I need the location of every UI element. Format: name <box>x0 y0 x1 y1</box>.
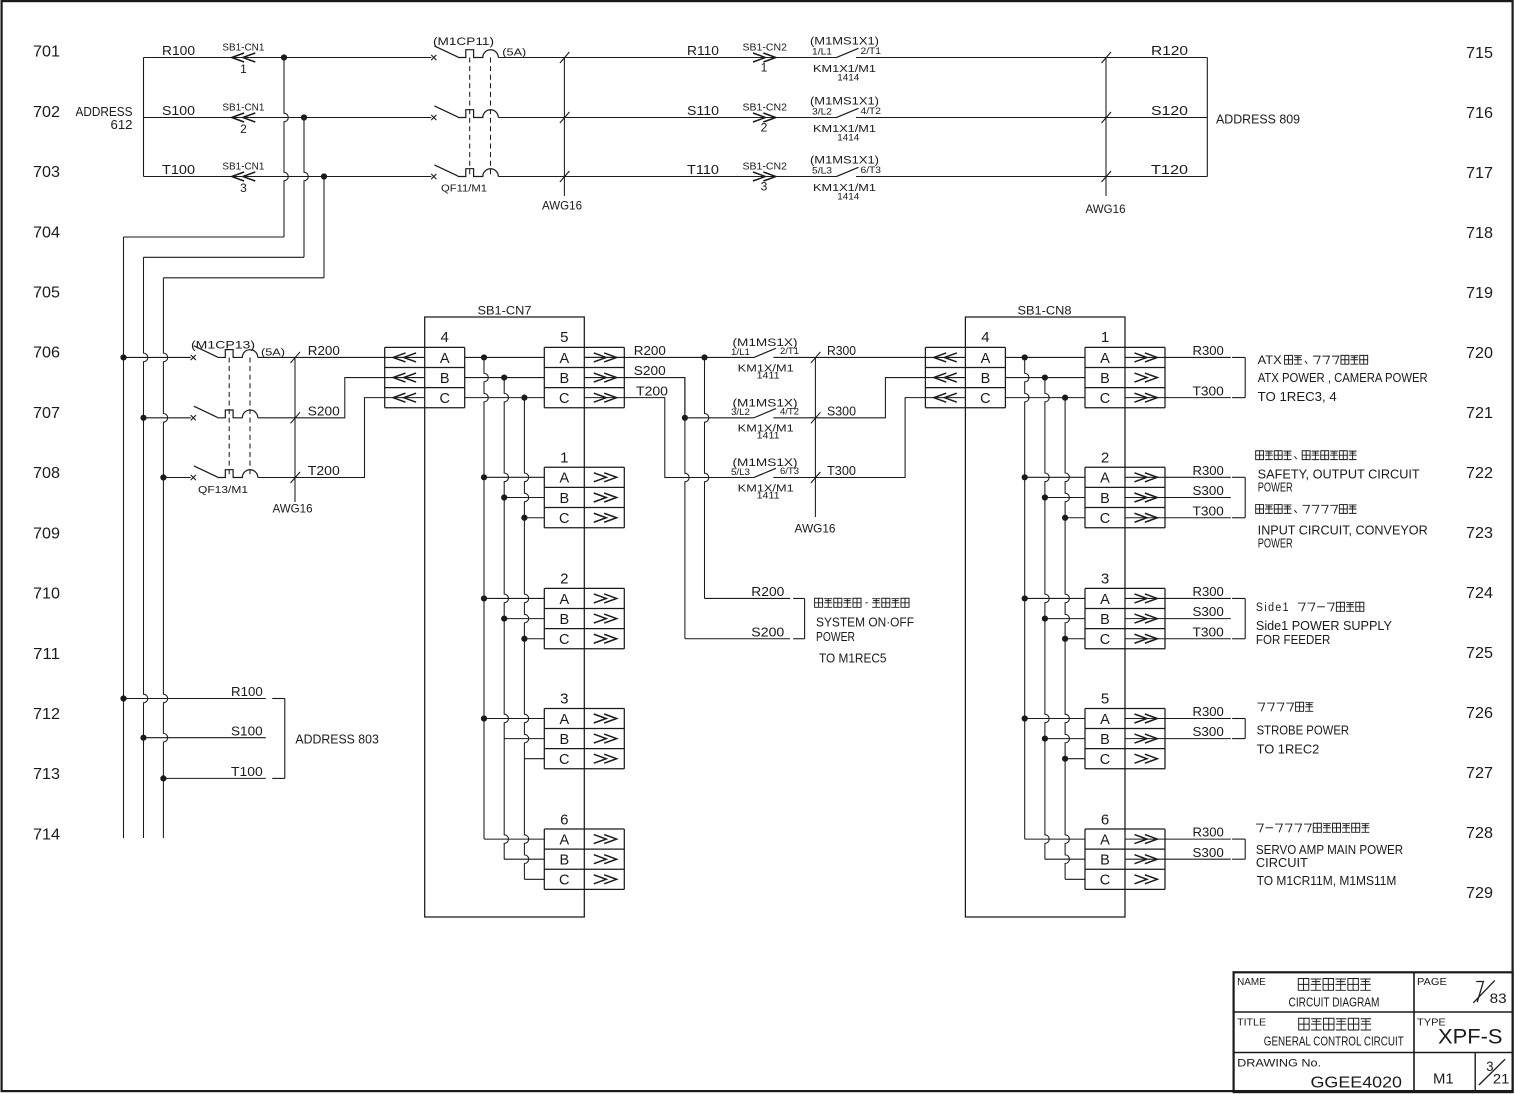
svg-text:ADDRESS 803: ADDRESS 803 <box>295 732 378 747</box>
svg-text:711: 711 <box>33 646 60 663</box>
svg-text:S100: S100 <box>162 103 195 118</box>
svg-text:704: 704 <box>33 224 60 241</box>
svg-text:SAFETY, OUTPUT CIRCUIT: SAFETY, OUTPUT CIRCUIT <box>1258 467 1420 481</box>
svg-text:2: 2 <box>560 571 568 588</box>
svg-text:4: 4 <box>441 329 449 346</box>
svg-text:725: 725 <box>1466 645 1493 662</box>
svg-text:B: B <box>559 853 569 869</box>
svg-text:QF13/M1: QF13/M1 <box>198 484 248 496</box>
svg-text:720: 720 <box>1466 345 1493 362</box>
svg-text:728: 728 <box>1466 825 1493 842</box>
svg-text:T300: T300 <box>1193 624 1224 639</box>
svg-text:POWER: POWER <box>816 630 855 644</box>
svg-text:(M1CP11): (M1CP11) <box>433 36 494 48</box>
svg-text:B: B <box>559 612 569 628</box>
svg-text:3: 3 <box>240 181 247 195</box>
svg-text:B: B <box>559 491 569 507</box>
svg-text:4/T2: 4/T2 <box>861 106 882 116</box>
svg-text:R100: R100 <box>231 684 263 699</box>
svg-text:2/T1: 2/T1 <box>780 346 799 356</box>
svg-text:C: C <box>559 873 569 889</box>
svg-text:QF11/M1: QF11/M1 <box>441 183 487 195</box>
svg-text:729: 729 <box>1466 885 1493 902</box>
svg-text:S100: S100 <box>231 723 263 738</box>
svg-text:R100: R100 <box>162 43 195 58</box>
svg-text:T300: T300 <box>827 463 856 478</box>
svg-text:714: 714 <box>33 826 60 843</box>
svg-text:GENERAL CONTROL CIRCUIT: GENERAL CONTROL CIRCUIT <box>1264 1034 1404 1049</box>
svg-text:721: 721 <box>1466 405 1493 422</box>
svg-text:SB1-CN1: SB1-CN1 <box>222 43 264 54</box>
svg-text:TO 1REC2: TO 1REC2 <box>1257 742 1320 756</box>
svg-text:XPF-S: XPF-S <box>1438 1026 1503 1049</box>
svg-text:Side1 POWER SUPPLY: Side1 POWER SUPPLY <box>1256 619 1393 633</box>
svg-text:POWER: POWER <box>1258 481 1293 495</box>
svg-text:5: 5 <box>560 329 568 346</box>
svg-text:PAGE: PAGE <box>1417 976 1447 988</box>
svg-text:T100: T100 <box>162 162 195 177</box>
svg-text:C: C <box>439 391 449 407</box>
svg-text:722: 722 <box>1466 465 1493 482</box>
svg-text:ATX: ATX <box>1258 355 1282 367</box>
svg-text:POWER: POWER <box>1258 537 1293 551</box>
svg-text:724: 724 <box>1466 585 1493 602</box>
svg-text:715: 715 <box>1466 45 1493 62</box>
svg-text:TO M1REC5: TO M1REC5 <box>819 652 887 666</box>
svg-text:B: B <box>1100 853 1110 869</box>
svg-text:M1: M1 <box>1433 1071 1454 1088</box>
svg-text:CIRCUIT DIAGRAM: CIRCUIT DIAGRAM <box>1289 995 1380 1010</box>
svg-text:C: C <box>1100 873 1110 889</box>
svg-text:5/L3: 5/L3 <box>731 467 750 477</box>
svg-text:1414: 1414 <box>837 192 859 203</box>
svg-text:717: 717 <box>1466 165 1493 182</box>
svg-text:T300: T300 <box>1193 503 1224 518</box>
svg-text:A: A <box>1100 471 1110 487</box>
svg-text:C: C <box>559 752 569 768</box>
svg-text:6/T3: 6/T3 <box>861 165 882 175</box>
svg-text:2: 2 <box>761 121 768 135</box>
svg-text:703: 703 <box>33 164 60 181</box>
svg-text:A: A <box>559 832 569 848</box>
svg-text:S300: S300 <box>827 403 856 418</box>
svg-text:S200: S200 <box>634 363 666 378</box>
svg-text:T200: T200 <box>636 383 668 398</box>
svg-text:3: 3 <box>761 180 768 194</box>
svg-text:TO M1CR11M, M1MS11M: TO M1CR11M, M1MS11M <box>1257 874 1397 888</box>
svg-text:T200: T200 <box>308 463 340 478</box>
svg-text:1: 1 <box>560 449 568 466</box>
svg-text:B: B <box>559 732 569 748</box>
svg-text:R300: R300 <box>827 343 856 358</box>
svg-text:T110: T110 <box>687 162 719 177</box>
svg-text:STROBE POWER: STROBE POWER <box>1257 723 1350 737</box>
svg-text:716: 716 <box>1466 105 1493 122</box>
svg-text:R110: R110 <box>687 43 719 58</box>
svg-text:Side1: Side1 <box>1256 602 1290 614</box>
svg-text:SERVO AMP MAIN POWER: SERVO AMP MAIN POWER <box>1256 843 1403 857</box>
svg-text:A: A <box>559 351 569 367</box>
svg-text:GGEE4020: GGEE4020 <box>1311 1074 1403 1091</box>
svg-text:1411: 1411 <box>757 431 780 442</box>
svg-text:1/L1: 1/L1 <box>731 347 750 357</box>
svg-text:4: 4 <box>981 329 989 346</box>
svg-text:708: 708 <box>33 465 60 482</box>
svg-text:4/T2: 4/T2 <box>780 406 799 416</box>
svg-text:INPUT CIRCUIT, CONVEYOR: INPUT CIRCUIT, CONVEYOR <box>1258 524 1428 538</box>
svg-text:1414: 1414 <box>837 133 859 144</box>
svg-text:S120: S120 <box>1151 103 1188 118</box>
svg-text:SB1-CN2: SB1-CN2 <box>743 162 788 173</box>
svg-text:ATX POWER , CAMERA POWER: ATX POWER , CAMERA POWER <box>1258 371 1428 385</box>
svg-text:B: B <box>981 371 991 387</box>
svg-text:TITLE: TITLE <box>1237 1017 1266 1029</box>
svg-text:2/T1: 2/T1 <box>861 46 882 56</box>
svg-text:B: B <box>1100 491 1110 507</box>
svg-text:R300: R300 <box>1193 704 1224 719</box>
svg-text:AWG16: AWG16 <box>273 502 313 516</box>
svg-text:6: 6 <box>1101 811 1109 828</box>
svg-text:710: 710 <box>33 586 60 603</box>
svg-text:S200: S200 <box>308 403 340 418</box>
svg-text:1: 1 <box>761 61 768 75</box>
svg-text:C: C <box>559 632 569 648</box>
svg-text:SB1-CN1: SB1-CN1 <box>222 162 264 173</box>
svg-text:R200: R200 <box>751 584 784 599</box>
svg-text:T300: T300 <box>1193 383 1224 398</box>
svg-text:707: 707 <box>33 405 60 422</box>
svg-text:A: A <box>559 471 569 487</box>
svg-text:3: 3 <box>560 691 568 708</box>
svg-text:S300: S300 <box>1193 845 1224 860</box>
svg-text:T100: T100 <box>231 764 263 779</box>
svg-text:R200: R200 <box>308 343 340 358</box>
svg-text:1414: 1414 <box>837 73 859 84</box>
svg-text:C: C <box>559 391 569 407</box>
svg-text:R300: R300 <box>1193 463 1224 478</box>
svg-text:S300: S300 <box>1193 604 1224 619</box>
svg-text:1: 1 <box>1101 329 1109 346</box>
svg-text:A: A <box>440 351 450 367</box>
svg-text:A: A <box>1100 712 1110 728</box>
svg-text:1411: 1411 <box>757 490 780 501</box>
svg-text:3/L2: 3/L2 <box>812 106 832 116</box>
svg-text:AWG16: AWG16 <box>795 522 836 536</box>
svg-text:A: A <box>1100 351 1110 367</box>
svg-text:NAME: NAME <box>1237 976 1266 988</box>
svg-text:DRAWING No.: DRAWING No. <box>1237 1057 1321 1069</box>
svg-text:706: 706 <box>33 345 60 362</box>
svg-text:A: A <box>1100 592 1110 608</box>
svg-text:B: B <box>1100 612 1110 628</box>
svg-text:709: 709 <box>33 525 60 542</box>
svg-text:SB1-CN7: SB1-CN7 <box>478 304 532 318</box>
svg-text:A: A <box>559 592 569 608</box>
svg-text:1: 1 <box>240 62 247 76</box>
svg-text:AWG16: AWG16 <box>542 199 582 213</box>
svg-text:R300: R300 <box>1193 825 1224 840</box>
svg-text:C: C <box>1100 391 1110 407</box>
svg-text:723: 723 <box>1466 525 1493 542</box>
svg-text:1411: 1411 <box>757 370 780 381</box>
svg-text:(5A): (5A) <box>502 47 526 59</box>
svg-text:5: 5 <box>1101 691 1109 708</box>
svg-text:SB1-CN2: SB1-CN2 <box>743 43 788 54</box>
svg-text:A: A <box>1100 832 1110 848</box>
svg-text:B: B <box>559 371 569 387</box>
svg-text:AWG16: AWG16 <box>1086 202 1126 216</box>
svg-text:SB1-CN2: SB1-CN2 <box>743 103 788 114</box>
svg-text:S110: S110 <box>687 103 719 118</box>
svg-text:A: A <box>981 351 991 367</box>
svg-text:5/L3: 5/L3 <box>812 165 832 175</box>
svg-text:21: 21 <box>1493 1071 1510 1087</box>
svg-text:727: 727 <box>1466 765 1493 782</box>
svg-text:FOR FEEDER: FOR FEEDER <box>1256 633 1331 647</box>
svg-text:2: 2 <box>1101 449 1109 466</box>
svg-text:CIRCUIT: CIRCUIT <box>1256 856 1308 870</box>
svg-text:2: 2 <box>240 122 247 136</box>
svg-text:R300: R300 <box>1193 343 1224 358</box>
svg-text:(M1CP13): (M1CP13) <box>191 339 255 351</box>
svg-text:ADDRESS 809: ADDRESS 809 <box>1216 112 1300 127</box>
svg-text:B: B <box>1100 371 1110 387</box>
svg-text:R300: R300 <box>1193 584 1224 599</box>
svg-text:S200: S200 <box>751 624 784 639</box>
svg-text:C: C <box>559 511 569 527</box>
svg-text:719: 719 <box>1466 285 1493 302</box>
svg-text:SYSTEM ON·OFF: SYSTEM ON·OFF <box>816 615 914 629</box>
svg-text:C: C <box>980 391 990 407</box>
svg-text:S300: S300 <box>1193 724 1224 739</box>
svg-text:1/L1: 1/L1 <box>812 46 832 56</box>
svg-text:B: B <box>440 371 450 387</box>
svg-text:C: C <box>1100 752 1110 768</box>
svg-text:TO 1REC3, 4: TO 1REC3, 4 <box>1258 390 1337 404</box>
svg-text:702: 702 <box>33 104 60 121</box>
svg-text:713: 713 <box>33 766 60 783</box>
svg-text:701: 701 <box>33 44 60 61</box>
svg-text:(5A): (5A) <box>261 346 285 358</box>
svg-text:712: 712 <box>33 706 60 723</box>
svg-text:R120: R120 <box>1151 43 1188 58</box>
svg-text:SB1-CN1: SB1-CN1 <box>222 103 264 114</box>
svg-text:A: A <box>559 712 569 728</box>
svg-text:718: 718 <box>1466 225 1493 242</box>
svg-text:B: B <box>1100 732 1110 748</box>
svg-text:R200: R200 <box>634 343 666 358</box>
svg-text:T120: T120 <box>1151 162 1188 177</box>
svg-text:SB1-CN8: SB1-CN8 <box>1018 304 1072 318</box>
svg-text:6: 6 <box>560 811 568 828</box>
svg-text:83: 83 <box>1490 991 1507 1006</box>
svg-text:C: C <box>1100 511 1110 527</box>
svg-text:612: 612 <box>111 117 133 132</box>
svg-text:726: 726 <box>1466 705 1493 722</box>
svg-text:3/L2: 3/L2 <box>731 407 750 417</box>
svg-text:6/T3: 6/T3 <box>780 466 799 476</box>
svg-text:C: C <box>1100 632 1110 648</box>
svg-text:705: 705 <box>33 284 60 301</box>
svg-text:S300: S300 <box>1193 483 1224 498</box>
svg-text:3: 3 <box>1101 571 1109 588</box>
